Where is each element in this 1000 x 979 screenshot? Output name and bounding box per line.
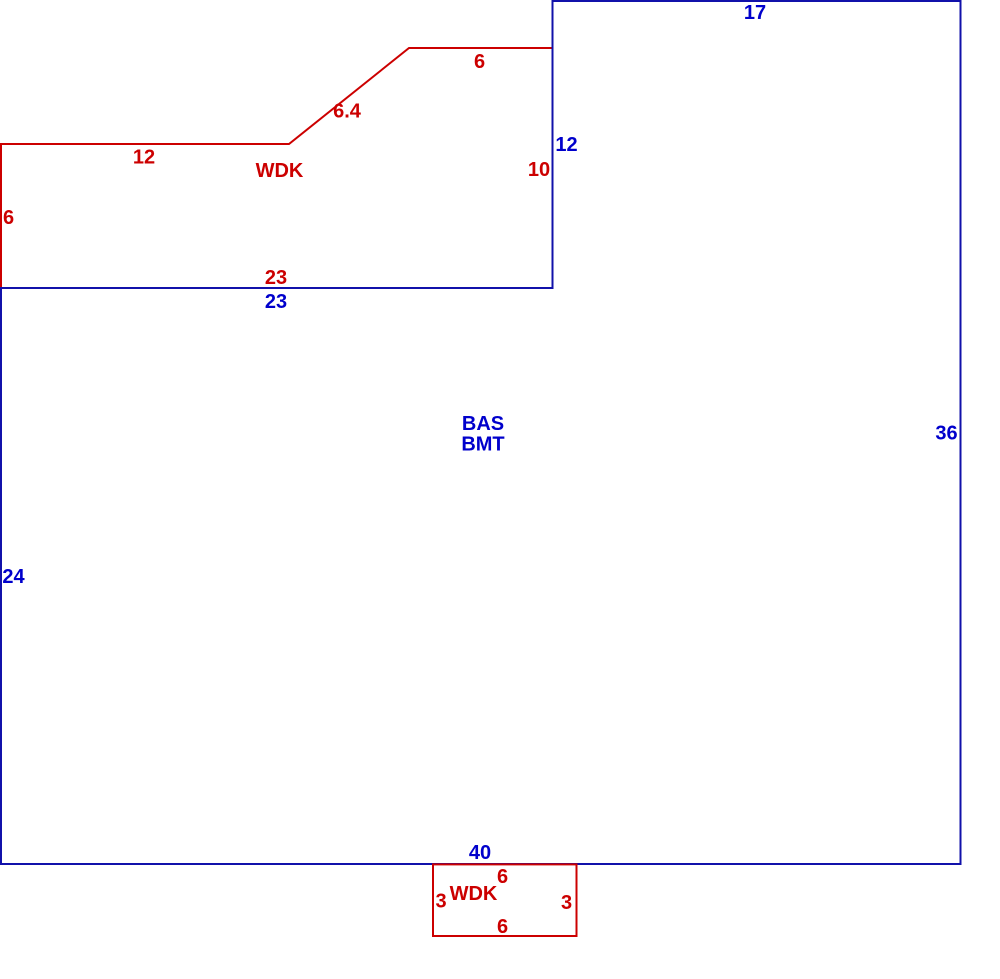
svg-text:6: 6 [497, 866, 508, 888]
deck area WDK (lower) outline [433, 864, 577, 936]
svg-text:12: 12 [555, 134, 577, 156]
svg-text:12: 12 [133, 147, 155, 169]
svg-text:36: 36 [935, 423, 957, 445]
svg-text:6: 6 [3, 207, 14, 229]
svg-text:23: 23 [265, 267, 287, 289]
svg-text:24: 24 [2, 566, 25, 588]
svg-text:23: 23 [265, 291, 287, 313]
svg-text:6: 6 [497, 916, 508, 938]
svg-text:17: 17 [744, 2, 766, 24]
svg-text:WDK: WDK [256, 160, 304, 182]
svg-text:3: 3 [435, 891, 446, 913]
deck area WDK (upper) outline [1, 48, 553, 288]
svg-text:3: 3 [561, 892, 572, 914]
svg-text:10: 10 [528, 159, 550, 181]
svg-text:6.4: 6.4 [333, 101, 362, 123]
svg-text:BMT: BMT [461, 434, 504, 456]
svg-text:6: 6 [474, 51, 485, 73]
svg-text:WDK: WDK [450, 883, 498, 905]
svg-text:40: 40 [469, 842, 491, 864]
svg-text:BAS: BAS [462, 413, 504, 435]
